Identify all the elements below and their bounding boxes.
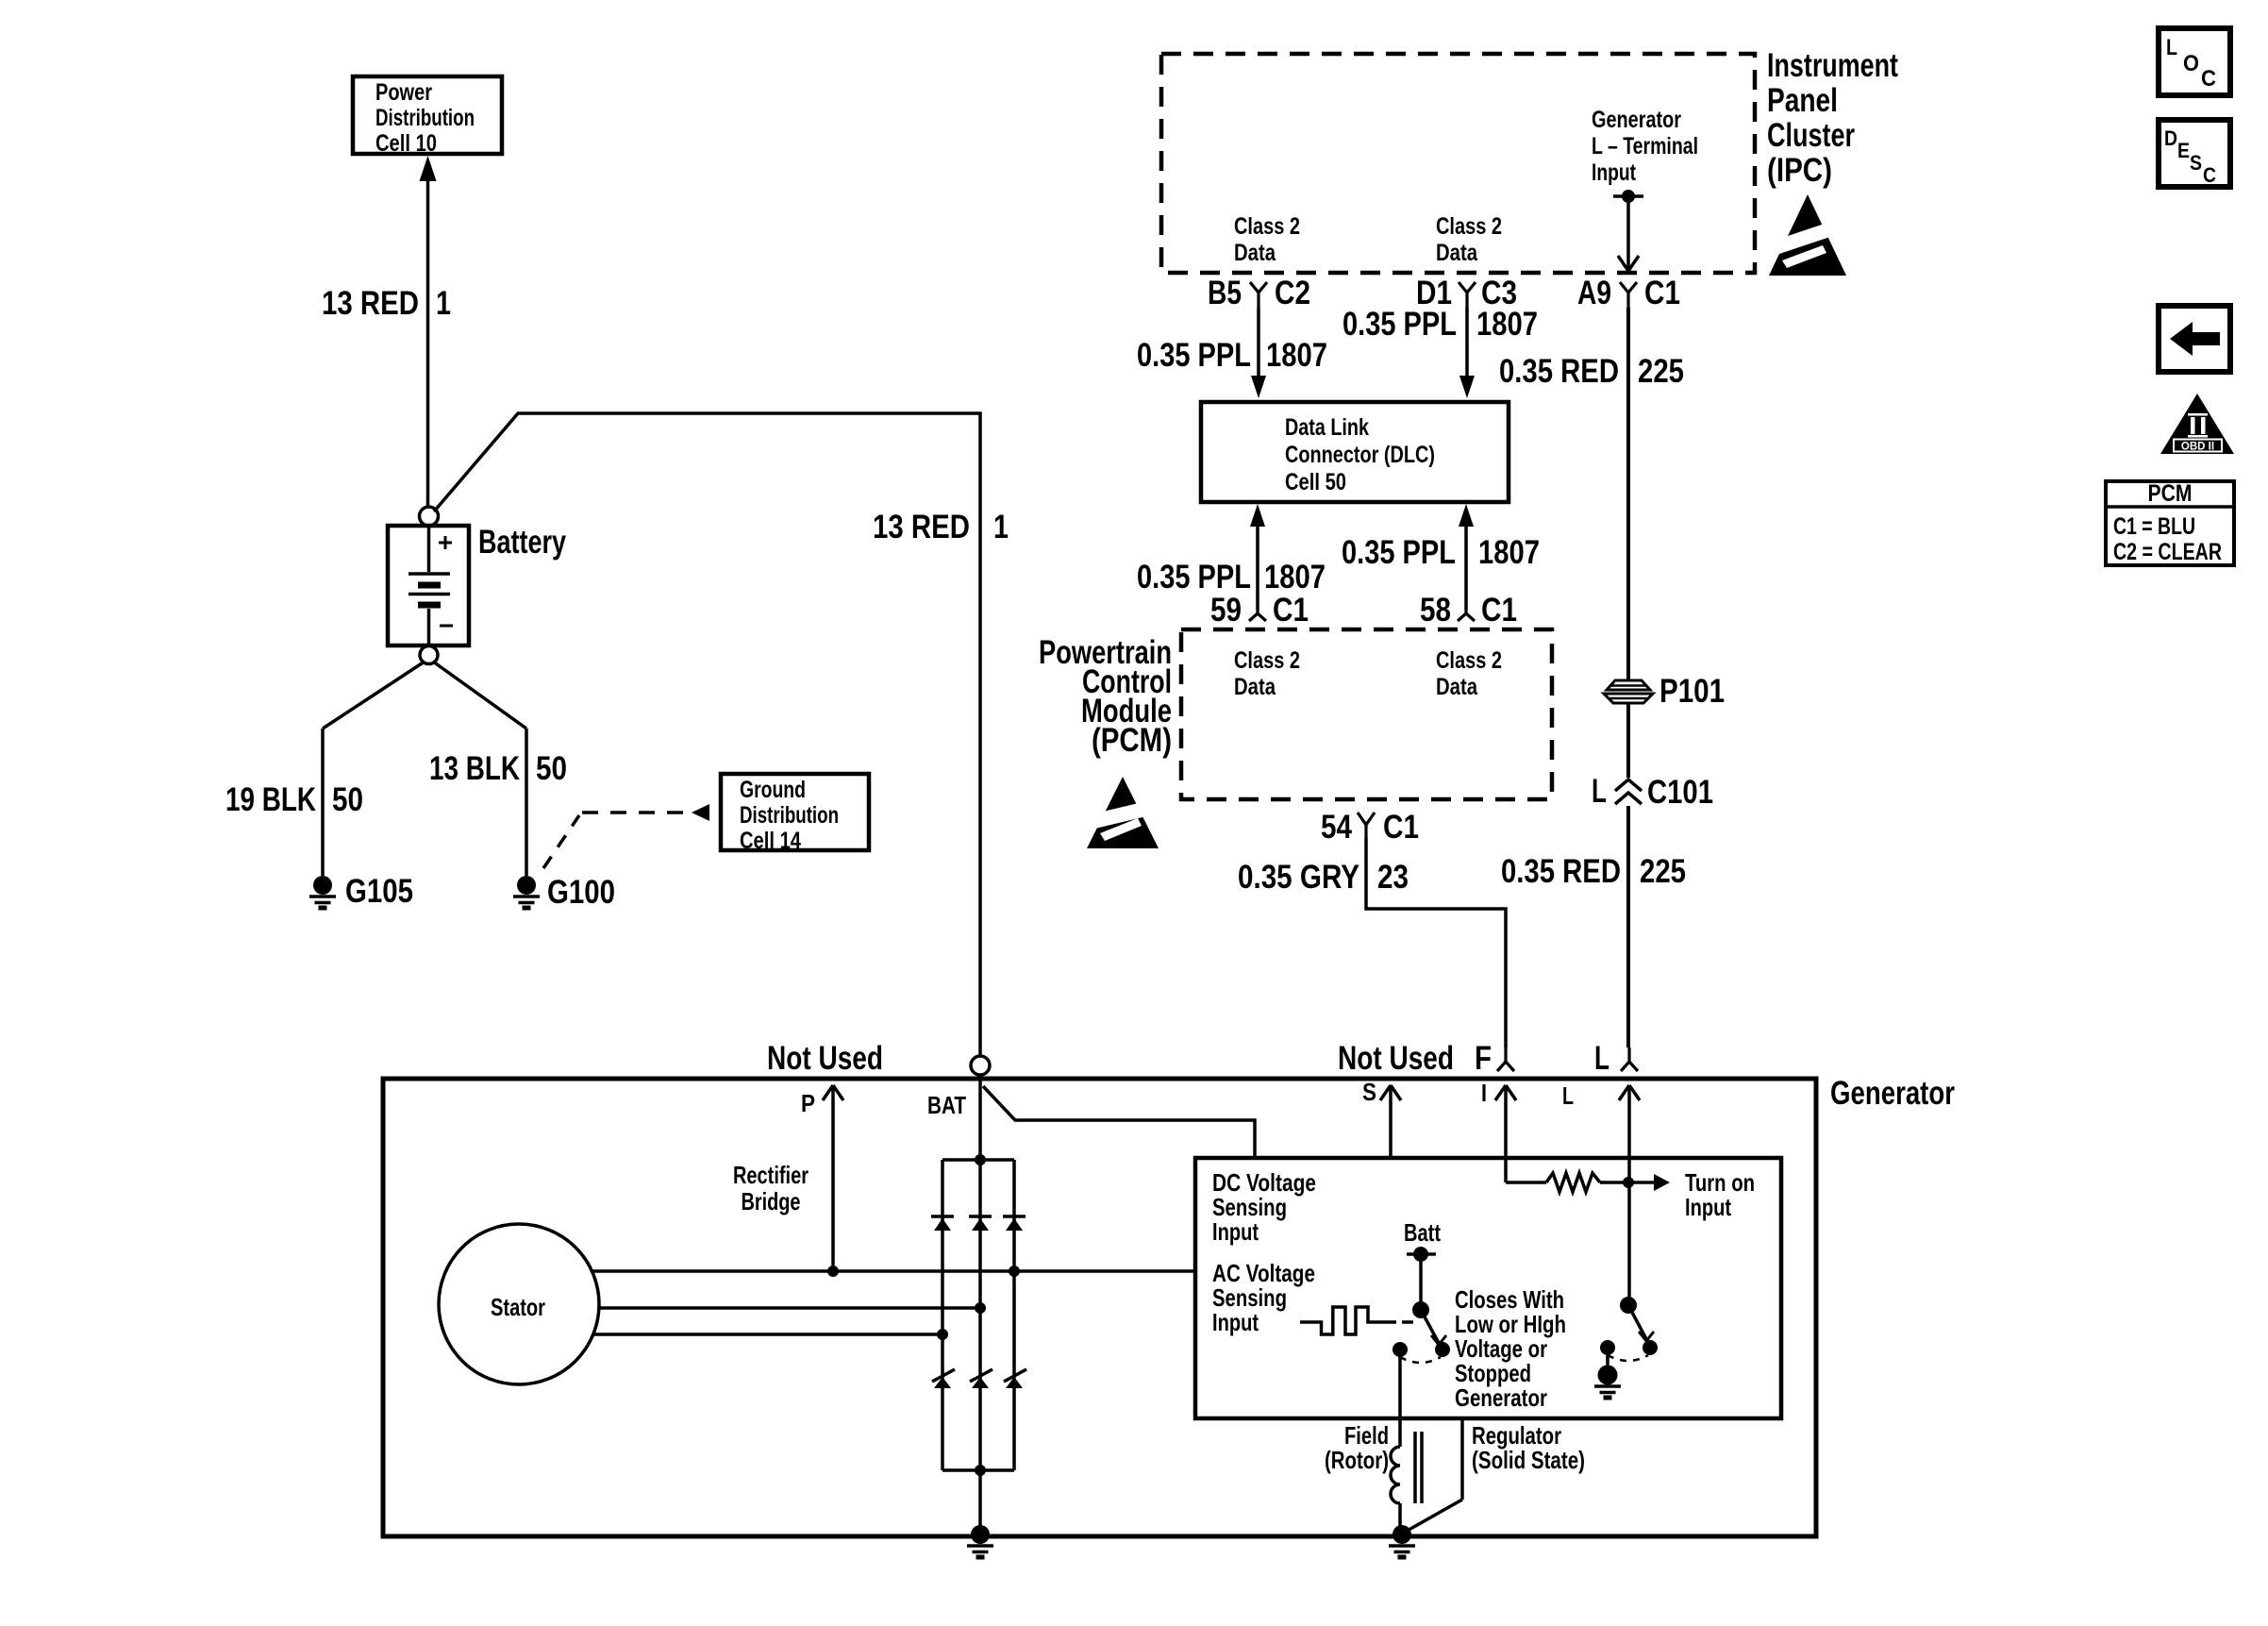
- label Class 2 Data (IPC right): [1436, 213, 1502, 266]
- svg-text:L: L: [1594, 1040, 1609, 1077]
- icon LOC box: [2159, 28, 2230, 95]
- wire 0.35 GRY 23 PCM 54 to generator F: [1366, 838, 1506, 1048]
- svg-text:D: D: [2164, 126, 2177, 150]
- label AC Voltage Sensing Input: [1212, 1259, 1315, 1336]
- label Closes With Low or HIgh Voltage or Stopped Generator: [1455, 1285, 1566, 1412]
- svg-text:Class 2: Class 2: [1436, 213, 1502, 240]
- svg-text:1: 1: [993, 509, 1009, 545]
- svg-text:C1: C1: [1481, 592, 1517, 629]
- svg-text:C: C: [2201, 66, 2216, 92]
- svg-text:A9: A9: [1577, 275, 1611, 311]
- icon back-arrow box: [2159, 306, 2230, 372]
- svg-text:19 BLK: 19 BLK: [225, 781, 316, 818]
- wire class2 D1 to DLC with arrow: [1459, 308, 1475, 398]
- label 13 RED 1 (right wire): [873, 509, 1009, 545]
- field coil (rotor) L1: [1391, 1432, 1422, 1527]
- svg-text:Class 2: Class 2: [1436, 647, 1502, 674]
- diode D1 (rectifier top): [931, 1216, 954, 1231]
- box: voltage regulator: [1195, 1158, 1781, 1418]
- box: Data Link Connector (DLC) Cell 50: [1201, 402, 1509, 502]
- junction dot P to phase1: [827, 1266, 839, 1277]
- ground at generator case (bridge): [967, 1525, 993, 1557]
- svg-text:Data: Data: [1234, 240, 1276, 266]
- svg-text:23: 23: [1377, 859, 1409, 896]
- junction dot phase2 center rail: [975, 1302, 986, 1314]
- svg-text:225: 225: [1638, 353, 1684, 390]
- label Instrument Panel Cluster (IPC): [1767, 47, 1898, 189]
- svg-text:L: L: [1562, 1081, 1574, 1110]
- svg-text:Data Link: Data Link: [1285, 414, 1369, 441]
- svg-text:L: L: [2166, 35, 2177, 60]
- svg-text:54: 54: [1321, 809, 1352, 846]
- svg-text:S: S: [2190, 151, 2202, 175]
- connector pin 59 C1: [1210, 592, 1309, 629]
- diode D2 (rectifier top): [969, 1216, 992, 1231]
- ground inside regulator (SW2): [1594, 1348, 1621, 1398]
- svg-text:Instrument: Instrument: [1767, 47, 1898, 84]
- svg-text:Distribution: Distribution: [740, 802, 839, 829]
- svg-text:Data: Data: [1234, 674, 1276, 700]
- connector pin 58 C1: [1420, 592, 1517, 629]
- connector pin B5 C2: [1208, 275, 1310, 311]
- icon OBD II triangle: [2160, 394, 2234, 454]
- junction dot resistor line and L wire: [1623, 1177, 1634, 1188]
- svg-text:C2: C2: [1275, 275, 1310, 311]
- battery negative terminal circle: [420, 646, 438, 664]
- svg-text:0.35 PPL: 0.35 PPL: [1137, 559, 1251, 595]
- label Class 2 Data (PCM left): [1234, 647, 1300, 700]
- inline connector C101 (double chevron): [1615, 779, 1642, 804]
- svg-text:1807: 1807: [1478, 534, 1540, 571]
- svg-text:13 BLK: 13 BLK: [429, 750, 520, 787]
- svg-text:G100: G100: [547, 874, 615, 911]
- svg-text:Batt: Batt: [1404, 1218, 1441, 1247]
- wire battery negative to grounds (two diagonals): [323, 662, 526, 876]
- svg-text:Cell 14: Cell 14: [740, 828, 801, 854]
- svg-text:PCM: PCM: [2148, 480, 2193, 507]
- svg-text:P101: P101: [1659, 673, 1725, 710]
- label 0.35 RED 225 (lower): [1501, 853, 1686, 890]
- svg-text:13 RED: 13 RED: [873, 509, 970, 545]
- svg-text:E: E: [2177, 139, 2190, 162]
- label Turn on Input: [1685, 1168, 1755, 1221]
- wire 13 RED 1 battery to generator BAT: [434, 413, 980, 1056]
- wire BAT to regulator DC sensing: [983, 1086, 1255, 1158]
- battery B1: [388, 526, 469, 645]
- svg-text:Data: Data: [1436, 674, 1478, 700]
- label Powertrain Control Module (PCM): [1039, 634, 1172, 759]
- label P101: [1659, 673, 1725, 710]
- junction dot phase3 left rail: [937, 1329, 948, 1340]
- junction dot bridge top: [975, 1154, 986, 1165]
- terminal S arrow: [1362, 1078, 1401, 1158]
- svg-text:Panel: Panel: [1767, 82, 1838, 119]
- svg-text:Battery: Battery: [478, 524, 566, 561]
- stator phase wire 3: [593, 1333, 942, 1336]
- ground at generator case (field): [1389, 1525, 1415, 1557]
- svg-text:P: P: [801, 1089, 815, 1117]
- svg-text:Generator: Generator: [1455, 1383, 1547, 1412]
- IPC L-terminal input node with arrow down: [1613, 190, 1643, 271]
- label Class 2 Data (PCM right): [1436, 647, 1502, 700]
- terminal I arrow: [1481, 1079, 1516, 1182]
- stator phase wire 1 (AC sensing): [592, 1269, 1195, 1273]
- junction dot phase1 right rail: [1009, 1266, 1020, 1277]
- svg-text:58: 58: [1420, 592, 1451, 629]
- svg-text:O: O: [2183, 51, 2199, 76]
- connector L at generator: [1594, 1040, 1638, 1077]
- svg-text:Ground: Ground: [740, 777, 806, 803]
- wire regulator to field ground: [1404, 1418, 1462, 1533]
- box: Power Distribution Cell 10: [353, 76, 502, 157]
- label 0.35 PPL 1807 (59 wire): [1137, 559, 1326, 595]
- svg-text:L – Terminal: L – Terminal: [1592, 133, 1698, 159]
- wire SW1 to field coil: [1398, 1349, 1402, 1447]
- generator BAT terminal circle: [971, 1056, 990, 1075]
- svg-text:50: 50: [536, 750, 567, 787]
- svg-text:225: 225: [1640, 853, 1686, 890]
- ground G105: [309, 873, 413, 910]
- stator: [439, 1224, 599, 1384]
- svg-text:Input: Input: [1592, 159, 1637, 186]
- svg-text:Input: Input: [1212, 1308, 1259, 1336]
- svg-text:Not Used: Not Used: [767, 1040, 883, 1077]
- svg-text:C2 = CLEAR: C2 = CLEAR: [2113, 539, 2222, 565]
- dashed reference arrow to Ground Distribution: [543, 804, 709, 868]
- svg-text:F: F: [1475, 1040, 1492, 1077]
- svg-text:0.35 RED: 0.35 RED: [1501, 853, 1621, 890]
- dashed box: Instrument Panel Cluster (IPC): [1161, 54, 1755, 273]
- svg-text:1807: 1807: [1476, 306, 1538, 343]
- label Regulator (Solid State): [1472, 1421, 1585, 1474]
- box: Generator: [383, 1079, 1816, 1536]
- terminal P arrow: [801, 1085, 843, 1271]
- label L C101: [1592, 773, 1713, 811]
- label 13 RED 1 (left wire): [322, 285, 451, 322]
- stator phase wire 2: [599, 1306, 980, 1310]
- label Batt: [1404, 1218, 1441, 1247]
- wire 0.35 RED 225 between P101 and C101: [1626, 702, 1630, 778]
- Batt tap with bar: [1407, 1247, 1436, 1310]
- svg-text:Power: Power: [375, 79, 432, 106]
- label Rectifier Bridge: [733, 1161, 809, 1215]
- svg-text:0.35 PPL: 0.35 PPL: [1342, 306, 1457, 343]
- label DC Voltage Sensing Input: [1212, 1168, 1316, 1246]
- label Field (Rotor): [1325, 1421, 1389, 1474]
- wire PCM 59 to DLC with arrow: [1250, 504, 1265, 610]
- connector pin A9 C1: [1577, 275, 1680, 311]
- svg-text:OBD II: OBD II: [2181, 442, 2214, 453]
- svg-text:Class 2: Class 2: [1234, 213, 1300, 240]
- svg-text:59: 59: [1210, 592, 1242, 629]
- svg-text:(IPC): (IPC): [1767, 152, 1832, 189]
- label 19 BLK 50: [225, 781, 363, 818]
- svg-text:Cell 10: Cell 10: [375, 130, 437, 157]
- label Generator: [1830, 1075, 1955, 1112]
- resistor and turn-on line: [1506, 1173, 1670, 1192]
- avalanche diode Z2 (rectifier bottom): [970, 1369, 992, 1388]
- label Not Used (left): [767, 1040, 883, 1077]
- svg-text:Generator: Generator: [1592, 107, 1681, 133]
- svg-text:50: 50: [332, 781, 363, 818]
- pass-through grommet P101: [1604, 680, 1653, 703]
- label Class 2 Data (IPC left): [1234, 213, 1300, 266]
- connector pin 54 C1: [1321, 809, 1419, 846]
- connector pin D1 C3: [1416, 275, 1517, 311]
- svg-text:C101: C101: [1647, 774, 1713, 811]
- dashed box: Powertrain Control Module (PCM): [1181, 629, 1552, 799]
- connector F at generator: [1475, 1040, 1514, 1077]
- label 0.35 PPL 1807 (D1 wire): [1342, 306, 1538, 343]
- label Generator L-Terminal Input: [1592, 107, 1698, 186]
- label Battery: [478, 524, 566, 561]
- svg-text:Distribution: Distribution: [375, 105, 475, 131]
- svg-text:Stator: Stator: [491, 1293, 545, 1321]
- svg-text:0.35 PPL: 0.35 PPL: [1342, 534, 1456, 571]
- svg-text:1807: 1807: [1264, 559, 1326, 595]
- wire 13 RED 1 battery to Power Distribution with arrow: [420, 156, 437, 507]
- label Not Used (right): [1338, 1040, 1454, 1077]
- svg-text:(Rotor): (Rotor): [1325, 1446, 1389, 1474]
- svg-text:G105: G105: [345, 873, 413, 910]
- ESD symbol (IPC): [1765, 194, 1850, 276]
- wire bridge bottom to case ground: [978, 1470, 982, 1534]
- svg-text:0.35 PPL: 0.35 PPL: [1137, 337, 1251, 374]
- svg-text:C1 = BLU: C1 = BLU: [2113, 513, 2195, 540]
- avalanche diode Z1 (rectifier bottom): [932, 1369, 955, 1388]
- svg-text:I: I: [1481, 1079, 1487, 1107]
- box: Ground Distribution Cell 14: [721, 774, 869, 854]
- svg-text:Class 2: Class 2: [1234, 647, 1300, 674]
- svg-text:13 RED: 13 RED: [322, 285, 419, 322]
- battery positive terminal circle: [420, 507, 439, 526]
- svg-text:(Solid State): (Solid State): [1472, 1446, 1585, 1474]
- svg-text:Data: Data: [1436, 240, 1478, 266]
- label 0.35 PPL 1807 (B5 wire): [1137, 337, 1327, 374]
- svg-text:Cell 50: Cell 50: [1285, 469, 1346, 495]
- svg-text:L: L: [1592, 773, 1607, 810]
- avalanche diode Z3 (rectifier bottom): [1004, 1369, 1026, 1388]
- svg-text:Input: Input: [1212, 1217, 1259, 1246]
- svg-text:Not Used: Not Used: [1338, 1040, 1454, 1077]
- wire class2 B5 to DLC with arrow: [1251, 308, 1266, 398]
- svg-text:1: 1: [436, 285, 451, 322]
- switch SW1 (voltage sense): [1392, 1301, 1450, 1363]
- svg-text:C: C: [2203, 163, 2216, 187]
- terminal BAT: [927, 1075, 980, 1160]
- rectifier bridge rails: [942, 1160, 1014, 1470]
- switch SW2 (lamp driver): [1600, 1297, 1658, 1361]
- svg-text:Bridge: Bridge: [742, 1187, 801, 1215]
- svg-text:0.35 GRY: 0.35 GRY: [1238, 859, 1359, 896]
- svg-text:C1: C1: [1273, 592, 1309, 629]
- svg-text:B5: B5: [1208, 275, 1242, 311]
- label 0.35 GRY 23: [1238, 859, 1409, 896]
- ground G100: [513, 874, 615, 911]
- svg-text:(PCM): (PCM): [1092, 722, 1172, 759]
- ESD symbol (PCM): [1083, 777, 1162, 848]
- svg-text:Generator: Generator: [1830, 1075, 1955, 1112]
- label 0.35 PPL 1807 (58 wire): [1342, 534, 1540, 571]
- svg-text:Input: Input: [1685, 1193, 1731, 1221]
- svg-text:BAT: BAT: [927, 1091, 966, 1119]
- diode D3 (rectifier top): [1003, 1216, 1026, 1231]
- wire 0.35 RED 225 lower segment to generator L: [1626, 806, 1630, 1048]
- svg-text:Connector (DLC): Connector (DLC): [1285, 442, 1435, 468]
- svg-text:C1: C1: [1383, 809, 1419, 846]
- square wave AC signal symbol: [1300, 1307, 1413, 1334]
- svg-text:C1: C1: [1644, 275, 1680, 311]
- label 0.35 RED 225 (upper): [1499, 353, 1684, 390]
- terminal L arrow: [1562, 1081, 1640, 1305]
- wire 0.35 RED 225 upper segment: [1626, 308, 1630, 680]
- icon DESC box: [2159, 120, 2230, 187]
- svg-text:1807: 1807: [1266, 337, 1327, 374]
- label 13 BLK 50: [429, 750, 567, 787]
- svg-text:Cluster: Cluster: [1767, 117, 1855, 154]
- junction dot bridge bottom: [975, 1465, 986, 1476]
- PCM connector legend table: [2106, 480, 2234, 565]
- svg-text:Rectifier: Rectifier: [733, 1161, 809, 1189]
- svg-text:S: S: [1362, 1078, 1376, 1106]
- wire PCM 58 to DLC with arrow: [1459, 504, 1474, 610]
- svg-text:0.35 RED: 0.35 RED: [1499, 353, 1619, 390]
